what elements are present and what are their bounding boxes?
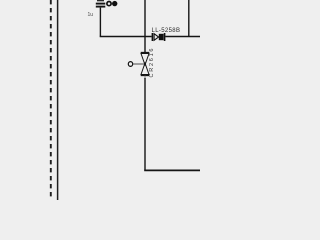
wire triac cathode grey tip bbox=[144, 76, 146, 79]
wire main vertical lower bbox=[144, 78, 146, 170]
gate terminal circle bbox=[128, 62, 132, 67]
wire capacitor lead bbox=[99, 8, 101, 37]
wire gate bbox=[133, 63, 144, 65]
boundary line bbox=[57, 0, 59, 200]
label C8 bbox=[107, 1, 118, 6]
TVS diode D1 bbox=[152, 33, 164, 41]
wire bottom horizontal bbox=[144, 169, 200, 171]
wire top horizontal left segment bbox=[100, 36, 152, 38]
wire main vertical upper bbox=[144, 0, 146, 53]
wire top horizontal right segment bbox=[165, 36, 200, 38]
dashed boundary line bbox=[50, 0, 52, 200]
svg-text:LL-5258B: LL-5258B bbox=[152, 28, 181, 34]
capacitor C8 bbox=[96, 1, 106, 7]
svg-text:1u: 1u bbox=[88, 12, 94, 18]
wire right vertical stub bbox=[188, 0, 190, 37]
triac Q1 bbox=[141, 53, 150, 76]
